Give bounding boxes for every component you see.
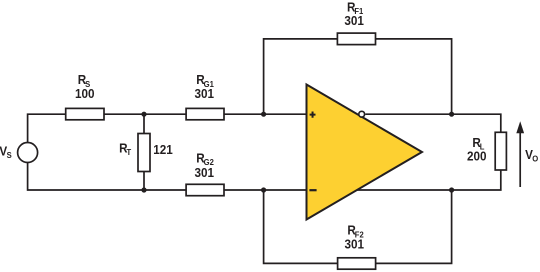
label RL <box>472 135 484 151</box>
label RS <box>78 73 91 89</box>
wire: bottom feedback loop right side (RF2 to output node) <box>376 190 452 263</box>
svg-text:301: 301 <box>345 237 365 252</box>
resistor RF1 <box>337 33 375 45</box>
resistor RL <box>495 132 506 170</box>
wire: RT bottom lead <box>143 172 145 191</box>
node: RT bottom junction <box>141 187 146 192</box>
label VO <box>525 147 538 163</box>
value 301 <box>194 165 214 180</box>
wire: RT top lead <box>143 114 145 133</box>
wire: bottom feedback loop left side (node to RF2) <box>264 190 338 263</box>
wire: op-amp inverted output to RL top <box>365 114 500 132</box>
inverting output bubble <box>359 111 365 117</box>
value 301 <box>344 14 364 29</box>
pin label + (non-inverting input) <box>310 112 316 118</box>
value 301 <box>345 237 365 252</box>
svg-text:301: 301 <box>344 14 364 29</box>
wire: VS top lead up to top rail and to RS <box>28 114 66 142</box>
svg-text:T: T <box>126 148 131 157</box>
resistor RG1 <box>186 108 224 119</box>
pin label - (inverting input) <box>309 189 316 191</box>
resistor RG2 <box>186 184 224 195</box>
label RF1 <box>347 0 364 16</box>
wire: op-amp output to RL bottom <box>357 170 501 190</box>
resistor RF2 <box>338 258 376 269</box>
op-amp U1 <box>307 85 423 220</box>
node: top output / RF1 junction <box>449 112 454 117</box>
value 301 <box>194 86 214 101</box>
svg-text:O: O <box>532 154 538 163</box>
svg-text:200: 200 <box>467 149 487 164</box>
value 200 <box>467 149 487 164</box>
label RT <box>119 141 131 157</box>
resistor RT <box>138 134 150 172</box>
wire: top feedback loop right side (RF1 to output node) <box>376 39 452 114</box>
label RG1 <box>196 73 214 89</box>
node: + input / RF1 junction <box>261 112 266 117</box>
node: bottom output / RF2 junction <box>449 187 454 192</box>
label RF2 <box>347 223 364 239</box>
label RG2 <box>196 151 214 167</box>
svg-text:S: S <box>7 151 13 160</box>
voltage source VS <box>18 143 38 163</box>
value 100 <box>75 86 95 101</box>
wire: RG1 to op-amp + input <box>224 113 307 115</box>
svg-text:100: 100 <box>75 86 95 101</box>
label VS <box>0 144 12 160</box>
svg-text:301: 301 <box>194 165 214 180</box>
wire: RG2 to op-amp - input <box>224 189 307 191</box>
wire: VS bottom lead down to bottom rail and to RG2 <box>28 163 187 191</box>
svg-text:301: 301 <box>194 86 214 101</box>
svg-text:121: 121 <box>153 143 173 158</box>
value 121 <box>153 143 173 158</box>
resistor RS <box>66 108 104 119</box>
node: - input / RF2 junction <box>261 187 266 192</box>
wire: RS to RG1 along top rail <box>104 113 186 115</box>
VO arrow <box>519 131 521 187</box>
wire: top feedback loop left side (node to RF1) <box>264 39 338 114</box>
node: RT top junction <box>141 112 146 117</box>
